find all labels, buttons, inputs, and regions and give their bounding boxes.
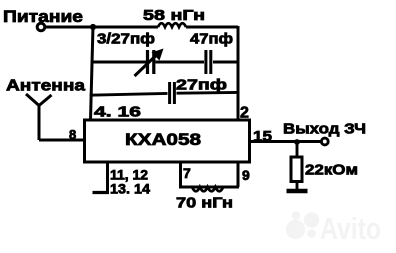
wire power to left bus [46, 26, 159, 29]
wire pins 11-14 lead [106, 163, 109, 193]
inductor L2 70 nH coil [192, 187, 223, 191]
svg-text:Выход ЗЧ: Выход ЗЧ [283, 121, 366, 138]
wire pin 7 lead [179, 163, 182, 187]
wire row2 mid [156, 61, 205, 64]
watermark avito logo [286, 211, 381, 246]
ground output [287, 189, 308, 194]
svg-text:Антенна: Антенна [6, 78, 85, 95]
wire pin 9 lead [237, 163, 240, 187]
wire row3 right [177, 91, 239, 95]
wire left bus [91, 26, 94, 120]
capacitor C2 47пф plates [206, 50, 211, 74]
node junction output [294, 139, 300, 145]
inductor L1 58 nH coil [158, 23, 186, 27]
svg-text:8: 8 [69, 127, 76, 142]
ground pins 11-14 [93, 191, 110, 194]
node junction top-left [90, 24, 96, 30]
wire pin 15 output [250, 140, 322, 143]
wire top right segment [186, 26, 238, 29]
IC U1 КХА058 body [85, 120, 250, 162]
svg-text:70 нГн: 70 нГн [176, 195, 233, 212]
svg-text:9: 9 [242, 167, 250, 183]
antenna symbol [26, 94, 52, 140]
trimmer capacitor C1 3/27пф plates [148, 50, 154, 74]
wire antenna to pin 8 [39, 139, 84, 142]
wire junction to resistor [296, 142, 299, 157]
wire row2 left [91, 61, 146, 64]
wire right bus [237, 26, 240, 120]
svg-text:22кОм: 22кОм [305, 162, 358, 179]
svg-text:13. 14: 13. 14 [110, 181, 150, 197]
svg-text:58 нГн: 58 нГн [143, 7, 205, 24]
capacitor C3 27пф plates [170, 82, 175, 104]
wire resistor to ground [296, 182, 299, 190]
svg-text:7: 7 [183, 165, 191, 181]
svg-text:КХА058: КХА058 [125, 130, 201, 149]
svg-text:27пф: 27пф [176, 77, 227, 94]
resistor R1 22кОм [291, 157, 302, 182]
terminal power input [37, 23, 45, 31]
wire row3 left [90, 93, 168, 95]
svg-text:47пф: 47пф [190, 31, 233, 48]
trimmer arrow [135, 55, 158, 77]
wire row2 right [213, 61, 238, 64]
terminal output [321, 138, 328, 145]
svg-text:4. 16: 4. 16 [94, 104, 141, 121]
svg-text:Avito: Avito [320, 211, 381, 246]
wire bottom between pins 7 and 9 [179, 186, 239, 189]
svg-text:3/27пф: 3/27пф [97, 31, 155, 48]
